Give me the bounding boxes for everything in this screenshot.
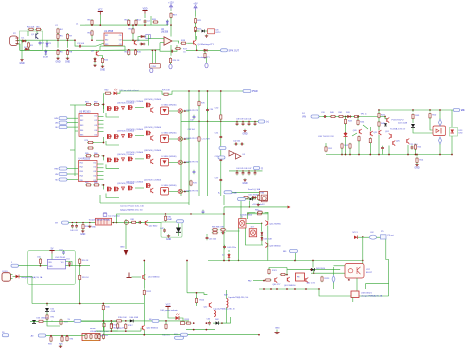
junction <box>128 24 130 26</box>
junction <box>407 154 409 156</box>
resistor R96 <box>66 335 68 342</box>
transistor Q33 <box>151 108 153 113</box>
svg-text:GND: GND <box>55 61 60 63</box>
junction <box>67 49 69 51</box>
junction <box>57 49 59 51</box>
wire v104 <box>103 321 105 336</box>
capacitor C22 <box>381 146 384 150</box>
wire D3 top <box>45 49 47 52</box>
wire Q50 out <box>143 331 145 335</box>
svg-text:CON1: CON1 <box>2 271 8 273</box>
junction <box>349 154 351 156</box>
wire G bottom rail <box>104 334 259 336</box>
wire C22 out <box>382 150 384 155</box>
svg-text:GND: GND <box>65 61 70 63</box>
wire out rail <box>186 49 222 51</box>
wire FB1 down <box>295 253 297 261</box>
resistor R76 <box>87 141 94 143</box>
diode D43 <box>261 231 263 237</box>
resistor R114 <box>195 297 197 304</box>
svg-text:D SS34 (SR240): D SS34 (SR240) <box>162 185 177 187</box>
wire U4 pin <box>97 174 104 176</box>
transistor Q36 <box>151 136 153 141</box>
wire opto bottom <box>439 144 441 155</box>
junction <box>294 260 296 262</box>
diode D60 <box>130 319 133 322</box>
ic U1 <box>104 30 123 46</box>
transistor Q62 <box>306 278 308 283</box>
body diode D33 <box>122 135 125 138</box>
capacitor C46 <box>206 236 209 240</box>
resistor R80 <box>82 223 84 230</box>
wire bias stub <box>70 149 75 151</box>
wire U1 under v2 <box>103 46 125 50</box>
ground <box>93 64 96 67</box>
capacitor C43r <box>254 122 257 126</box>
svg-text:R116: R116 <box>105 307 109 309</box>
resistor R93 <box>60 319 62 326</box>
junction <box>206 322 208 324</box>
wire H loop bottom <box>365 283 388 285</box>
wire D23 in <box>451 110 453 127</box>
wire Brow2 <box>240 197 244 199</box>
svg-text:Can impedan: Can impedan <box>108 216 120 218</box>
resistor C50 <box>39 258 41 265</box>
svg-text:D SS34 (SR240): D SS34 (SR240) <box>162 133 177 135</box>
resistor R4 <box>57 28 59 35</box>
capacitor C41 <box>138 221 142 224</box>
resistor R13 <box>132 28 134 35</box>
junction <box>345 132 347 134</box>
diode D9 <box>203 49 209 52</box>
power port VCC <box>98 9 103 14</box>
wire R114 in <box>196 293 198 298</box>
wire G v187 <box>186 261 188 293</box>
capacitor C62 polar <box>369 235 376 239</box>
wire C4 out <box>144 24 146 25</box>
junction <box>416 154 418 156</box>
wire bus V5 <box>220 91 222 196</box>
wire conn gnd <box>17 44 20 50</box>
junction <box>242 121 243 122</box>
resistor R103 <box>38 320 44 322</box>
junction <box>79 265 81 267</box>
junction <box>110 320 112 322</box>
wire vcc2 <box>246 198 257 200</box>
svg-text:LED: LED <box>459 133 464 135</box>
junction <box>196 292 198 294</box>
resistor R21 <box>194 18 196 25</box>
wire NTC out <box>358 236 370 238</box>
wire G step <box>187 293 207 295</box>
port TP4 <box>253 166 263 170</box>
resistor R86 <box>258 194 260 201</box>
svg-text:Q37 NCE_C30N06: Q37 NCE_C30N06 <box>126 152 144 154</box>
wire U18 down <box>352 298 354 303</box>
transformer T1 winding 1 <box>239 219 247 228</box>
ground triangle <box>124 250 129 256</box>
ground <box>88 225 91 228</box>
junction <box>362 236 363 237</box>
buzzer LS1 <box>261 195 267 202</box>
wire Q50 base <box>140 328 142 331</box>
svg-text:C33 104: C33 104 <box>188 129 195 131</box>
junction <box>261 223 262 224</box>
junction <box>258 334 260 336</box>
resistor R122 <box>280 273 286 275</box>
resistor R72 <box>243 196 249 198</box>
wire row4 src <box>106 194 119 198</box>
resistor R94 <box>50 336 52 343</box>
connector P1 <box>10 36 19 46</box>
wire G mid <box>159 320 189 322</box>
wire diag2 <box>352 133 357 136</box>
wire net A2 <box>20 49 103 51</box>
diode D38 SS34 <box>161 188 169 196</box>
junction <box>152 49 154 51</box>
junction <box>198 90 200 92</box>
wire vcc2 down <box>248 201 250 207</box>
port ADC <box>38 334 46 337</box>
diode D64 <box>354 236 358 240</box>
resistor R120 <box>265 279 272 281</box>
port Bminus <box>224 191 232 194</box>
junction <box>429 109 431 111</box>
wire v103 a <box>102 304 104 306</box>
port FB <box>152 319 159 322</box>
resistor R113 <box>165 323 167 330</box>
capacitor C61 polar <box>332 267 335 289</box>
wire R121 top <box>269 268 287 270</box>
wire U3 pin <box>98 127 104 129</box>
svg-text:L3 SMD PIO73: L3 SMD PIO73 <box>185 162 199 164</box>
transistor Q22 <box>379 130 381 135</box>
wire U1 in <box>96 39 104 41</box>
wire H rail289 <box>259 288 319 290</box>
wire row3 d1 <box>169 161 179 163</box>
op-amp U2 <box>164 37 172 45</box>
wire Q21 top <box>369 127 371 131</box>
junction <box>451 154 453 156</box>
resistor R40 <box>330 115 336 117</box>
wire left stub <box>150 16 152 25</box>
diode D34 SS34 <box>161 135 169 143</box>
port VOUT <box>453 108 464 112</box>
resistor R46 <box>369 137 371 144</box>
resistor R11 <box>128 19 130 26</box>
wire U1 in2 <box>96 43 104 46</box>
svg-text:D30 on while at boot: D30 on while at boot <box>120 89 139 92</box>
junction <box>91 39 93 41</box>
resistor R52 <box>341 143 343 150</box>
resistor R61a <box>85 103 92 105</box>
junction <box>110 330 112 332</box>
wire D63 drop <box>313 270 315 274</box>
junction <box>82 222 83 223</box>
junction <box>184 110 186 112</box>
wire to D8 <box>196 30 200 32</box>
wire F v32 <box>31 277 33 304</box>
resistor R90 <box>79 258 81 265</box>
wire rail 260 <box>208 260 362 262</box>
wire IN1 <box>67 117 78 119</box>
svg-text:Q41 NCE_C30N06: Q41 NCE_C30N06 <box>144 179 162 181</box>
optocoupler U11 <box>433 126 446 136</box>
ic U14 <box>47 259 65 269</box>
svg-text:Marking=2TY: Marking=2TY <box>197 56 210 59</box>
transistor Q4 <box>194 40 196 45</box>
junction <box>195 30 197 32</box>
wire diag1 <box>363 125 368 129</box>
junction <box>270 288 272 290</box>
resistor R41 <box>338 115 344 117</box>
capacitor C30 <box>206 108 209 112</box>
svg-text:R82: R82 <box>168 217 171 219</box>
wire R87 out <box>265 212 269 214</box>
wire bus V2 <box>188 91 190 205</box>
wire D52 in <box>46 304 48 307</box>
zener diode Z1 <box>46 42 49 48</box>
mosfet Q32 <box>147 103 152 108</box>
power port VCC3 <box>165 304 170 309</box>
ground <box>166 234 171 241</box>
wire row2 d2 <box>183 138 190 140</box>
diode D3 <box>45 50 48 56</box>
ground <box>100 65 105 72</box>
wire chain out <box>226 230 240 232</box>
capacitor C34 <box>219 158 222 162</box>
wire Q26 out <box>407 145 409 155</box>
svg-text:GND: GND <box>92 227 97 229</box>
wire R5-R6 <box>57 40 59 48</box>
junction <box>193 322 195 324</box>
svg-text:Liquid=TR(Bias) 230, 3t: Liquid=TR(Bias) 230, 3t <box>214 308 236 311</box>
svg-text:Liquid=TR(A) 230, 10t: Liquid=TR(A) 230, 10t <box>229 296 249 299</box>
wire R53 out <box>349 148 351 154</box>
wire H in <box>253 280 264 282</box>
wire Q51 base <box>132 276 142 278</box>
wire row2 d1 <box>169 138 179 140</box>
resistor R87 <box>257 211 264 213</box>
capacitor C32 <box>193 115 196 119</box>
diode D52 <box>45 308 49 312</box>
wire bus V1 <box>180 111 182 196</box>
wire R43 in <box>345 117 347 120</box>
resistor R15 <box>134 49 136 56</box>
wire row1 feed <box>102 104 104 109</box>
wire row1 gate2 <box>135 107 144 109</box>
junction <box>57 39 59 41</box>
wire D rail214 <box>117 214 225 223</box>
resistor R81 <box>131 221 137 223</box>
ic U15 AP3706 <box>82 334 100 341</box>
junction <box>154 49 156 51</box>
wire row3 gate2 <box>135 158 144 160</box>
resistor R64b <box>93 184 100 186</box>
capacitor C43 <box>202 210 205 214</box>
wire R22 out <box>195 32 197 40</box>
junction <box>196 49 198 51</box>
wire D22 out <box>413 128 433 133</box>
port IN6 <box>218 156 225 159</box>
svg-text:+BAT: +BAT <box>232 192 238 195</box>
ic U18 <box>351 291 359 298</box>
wire R3 stub <box>36 31 38 34</box>
ground <box>80 229 85 236</box>
port IN6 <box>59 178 67 181</box>
resistor R87b <box>220 229 226 231</box>
wire U1 under <box>100 45 125 47</box>
svg-text:12V: 12V <box>461 110 465 112</box>
svg-text:R81: R81 <box>131 219 134 221</box>
power port 5V <box>49 248 54 253</box>
junction <box>186 260 188 262</box>
resistor R23 <box>204 52 206 59</box>
wire opamp vcc <box>170 25 172 36</box>
junction <box>16 276 17 277</box>
wire row2 src <box>106 141 119 145</box>
diode D8 <box>202 30 208 33</box>
junction <box>143 334 145 336</box>
junction <box>205 49 207 51</box>
wire H rail jog <box>319 289 389 296</box>
capacitor C42r <box>234 143 238 146</box>
junction <box>248 121 249 122</box>
svg-text:SPK OUT: SPK OUT <box>229 49 240 52</box>
wire row1 up <box>102 105 104 114</box>
op-amp U5A <box>229 151 235 157</box>
resistor R116 <box>102 304 104 311</box>
wire I v224 top <box>223 195 225 205</box>
diode D42 <box>176 224 181 237</box>
svg-text:HIN: HIN <box>55 118 59 120</box>
transistor Q60 <box>275 278 277 283</box>
wire R49 in <box>412 110 414 112</box>
svg-text:L2 4.7uH: L2 4.7uH <box>202 139 211 141</box>
wire TRA bot <box>226 308 228 324</box>
svg-text:Q32 NCE_C30N06: Q32 NCE_C30N06 <box>144 99 162 101</box>
svg-text:GND: GND <box>100 69 105 71</box>
junction <box>263 280 265 282</box>
junction <box>341 154 343 156</box>
port P5 <box>381 235 387 239</box>
wire G bus2 <box>96 330 141 332</box>
svg-text:Iq(typ)=TA(SW) 230, 10t: Iq(typ)=TA(SW) 230, 10t <box>120 209 143 212</box>
wire opto in2 <box>311 272 345 274</box>
mosfet Q30a <box>108 106 113 111</box>
wire R91 in <box>79 264 81 276</box>
body diode D35 <box>122 158 125 161</box>
svg-text:L2 SMD PIO73: L2 SMD PIO73 <box>185 138 199 140</box>
capacitor C53r <box>254 171 257 175</box>
ic U8 <box>208 29 215 34</box>
svg-text:Q40 8050: Q40 8050 <box>149 225 159 227</box>
port FB1 <box>290 249 298 252</box>
LED D61 <box>176 313 180 320</box>
diode D44 <box>261 236 263 242</box>
wire row3 d2 <box>183 161 190 163</box>
wire U2 in- <box>160 42 164 44</box>
junction <box>103 104 105 106</box>
wire B top rail <box>379 109 455 111</box>
resistor R115 <box>185 322 191 324</box>
capacitor C4 body <box>144 19 147 23</box>
svg-text:Q41 2SD965: Q41 2SD965 <box>269 224 281 226</box>
capacitor C40r <box>236 122 239 126</box>
junction <box>188 90 190 92</box>
resistor R16 <box>101 57 103 64</box>
wire Q3 base <box>95 50 97 51</box>
svg-text:PC817 B-PU: PC817 B-PU <box>392 119 404 121</box>
junction <box>132 24 134 26</box>
transistor Q42 <box>151 188 153 193</box>
junction <box>221 322 223 324</box>
transformer T1 winding A <box>227 299 229 308</box>
transistor Q1 <box>36 33 39 39</box>
port TP3 <box>258 120 269 124</box>
junction <box>79 303 81 305</box>
wire R46 out <box>369 143 371 155</box>
ic U13 <box>96 218 112 225</box>
wire B bottom rail <box>326 154 452 156</box>
port IN4 <box>59 167 67 170</box>
wire IN6 <box>67 179 78 181</box>
capacitor C40b <box>75 224 78 228</box>
junction <box>72 222 73 223</box>
junction <box>66 335 68 337</box>
svg-text:R90 1K: R90 1K <box>82 260 89 262</box>
junction <box>184 138 186 140</box>
svg-text:C40 C41: C40 C41 <box>70 230 79 232</box>
wire R48 out <box>378 126 380 130</box>
resistor R8 <box>66 49 68 56</box>
mosfet Q30b <box>115 106 120 111</box>
resistor R71 <box>220 114 222 121</box>
connector CON1 <box>2 273 13 282</box>
resistor R111 <box>110 323 112 330</box>
junction <box>249 206 250 207</box>
wire R18 out <box>187 42 193 44</box>
wire R113 in <box>165 321 167 324</box>
op-amp U5B <box>236 154 242 160</box>
resistor R64a <box>85 184 92 186</box>
resistor R51 <box>325 146 327 153</box>
ground <box>55 57 60 64</box>
wire R92 out <box>47 319 60 326</box>
wire R19 out <box>170 18 172 26</box>
wire G bus1 <box>81 320 153 322</box>
transistor Q52 <box>209 303 211 308</box>
junction <box>132 39 134 41</box>
wire Brow <box>232 191 260 193</box>
junction <box>193 329 195 331</box>
wire row2 gate2 <box>135 135 144 137</box>
connector CON5 <box>150 63 161 68</box>
port VCC2 <box>238 197 246 200</box>
junction <box>113 222 114 223</box>
junction <box>125 330 127 332</box>
port label <box>181 322 185 325</box>
svg-text:CON5: CON5 <box>151 66 157 68</box>
wire bus V4 <box>207 91 209 196</box>
svg-text:GND: GND <box>414 168 419 170</box>
transistor Q24 <box>389 134 391 139</box>
resistor R99 <box>95 334 97 340</box>
wire row2 feed <box>93 137 104 143</box>
resistor R42 <box>353 115 359 117</box>
wire C top rail b <box>168 91 243 94</box>
port 12VIN <box>11 264 19 267</box>
